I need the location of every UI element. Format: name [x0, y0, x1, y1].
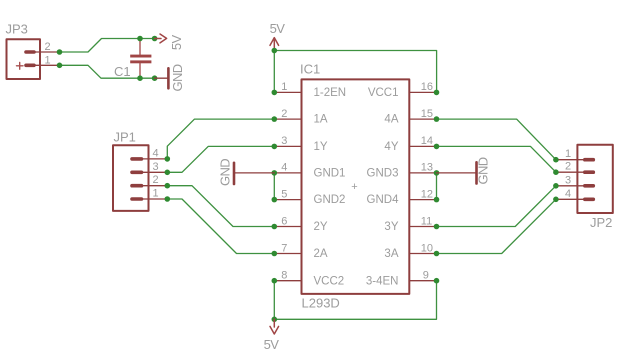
wire JP1.3 to IC pin3 — [167, 146, 274, 172]
svg-text:9: 9 — [423, 270, 429, 282]
junction JP1.4 — [165, 156, 171, 162]
wire IC pin14 to JP2.2 — [437, 146, 556, 172]
IC pin numbers right — [421, 81, 433, 281]
junction pin16 — [434, 90, 440, 96]
junction JP3.2 — [57, 49, 63, 55]
svg-text:VCC2: VCC2 — [314, 275, 345, 287]
svg-text:VCC1: VCC1 — [368, 87, 399, 99]
svg-text:2Y: 2Y — [314, 221, 328, 233]
IC pin 10 — [409, 253, 436, 255]
svg-text:2: 2 — [153, 174, 159, 186]
IC pin 12 — [409, 199, 436, 201]
wire JP1.2 to IC pin6 — [167, 186, 274, 227]
wire JP3.1 to GND/C1 rail — [60, 65, 155, 78]
svg-text:10: 10 — [421, 242, 433, 254]
wire IC pin15 to JP2.1 — [437, 119, 556, 160]
junction pin8 — [272, 278, 278, 284]
junction C1 top — [137, 36, 143, 42]
junction pin7 — [272, 251, 278, 257]
wire IC pin10 to JP2.4 — [437, 199, 556, 253]
svg-text:IC1: IC1 — [300, 62, 320, 77]
IC pin 8 — [274, 280, 301, 282]
IC pin name labels left column — [314, 87, 347, 287]
svg-text:3: 3 — [281, 135, 287, 147]
ground symbol right of IC (GND3/GND4) — [437, 162, 477, 183]
svg-text:15: 15 — [421, 108, 433, 120]
junction bottom 5V — [272, 317, 278, 323]
wire 5V net: IC pin1 up, rail across, down to IC pin16 — [274, 51, 436, 93]
IC pin 3 — [274, 145, 301, 147]
wire GND1 to GND2 link — [273, 173, 275, 200]
IC pin name labels right column — [366, 87, 399, 287]
power 5V arrow (right-pointing, top-left) — [155, 34, 167, 43]
svg-text:1: 1 — [565, 148, 571, 160]
svg-text:1A: 1A — [314, 114, 328, 126]
ground symbol near C1 — [155, 68, 169, 88]
svg-text:GND4: GND4 — [367, 194, 400, 206]
junction C1 bottom — [137, 75, 143, 81]
junction pin10 — [434, 251, 440, 257]
svg-text:2: 2 — [565, 161, 571, 173]
junction pin12 — [434, 197, 440, 203]
wire bottom 5V net: IC pin8 down, across, up to IC pin9 — [274, 281, 436, 320]
junction JP3.1 — [57, 63, 63, 69]
IC pin 11 — [409, 226, 436, 228]
wire IC pin11 to JP2.3 — [437, 186, 556, 227]
power 5V arrow (up, above IC) — [270, 38, 279, 51]
svg-text:13: 13 — [421, 162, 433, 174]
junction pin13 — [434, 170, 440, 176]
IC pin 2 — [274, 118, 301, 120]
wire GND3 to GND4 link — [436, 173, 438, 200]
svg-text:GND: GND — [218, 159, 233, 186]
svg-text:3-4EN: 3-4EN — [366, 275, 399, 287]
svg-text:GND3: GND3 — [367, 168, 399, 180]
svg-text:L293D: L293D — [302, 296, 340, 311]
IC pin numbers left — [281, 81, 287, 281]
svg-text:GND2: GND2 — [314, 194, 346, 206]
junction JP2.2 — [553, 169, 559, 175]
junction pin9 — [434, 278, 440, 284]
IC pin 14 — [409, 145, 436, 147]
svg-text:1: 1 — [45, 55, 51, 67]
ground symbol left of IC (GND1/GND2) — [234, 163, 274, 184]
junctions IC right pins — [434, 90, 440, 284]
IC U1 (L293D) body — [302, 79, 410, 294]
capacitor C1 — [130, 41, 151, 76]
connector JP1 — [113, 145, 167, 211]
junction JP1.3 — [165, 170, 171, 176]
IC pin 5 — [274, 199, 301, 201]
svg-text:GND1: GND1 — [314, 168, 346, 180]
svg-text:4Y: 4Y — [384, 141, 398, 153]
junction pin1 — [272, 90, 278, 96]
junction pin3 — [272, 144, 278, 150]
svg-text:GND: GND — [170, 64, 185, 91]
IC pin 13 — [409, 172, 436, 174]
junction pin5 — [272, 197, 278, 203]
svg-text:4A: 4A — [384, 114, 398, 126]
svg-text:5V: 5V — [264, 337, 280, 352]
svg-text:1: 1 — [281, 81, 287, 93]
wire JP1.1 to IC pin7 — [167, 199, 274, 254]
IC pin 16 — [409, 91, 436, 93]
junction 5V top — [272, 48, 278, 54]
IC pin 6 — [274, 226, 301, 228]
svg-text:4: 4 — [565, 188, 571, 200]
svg-text:2: 2 — [281, 108, 287, 120]
IC pin 1 — [274, 91, 301, 93]
junction 5V arrow left — [152, 36, 158, 42]
junction JP1.1 — [165, 196, 171, 202]
power 5V arrow (down, below IC) — [270, 319, 279, 334]
svg-text:3Y: 3Y — [384, 221, 398, 233]
svg-text:12: 12 — [421, 188, 433, 200]
svg-text:+: + — [351, 181, 357, 193]
junction JP2.3 — [553, 183, 559, 189]
connector JP2 — [556, 145, 613, 213]
junction pin4 — [272, 170, 278, 176]
svg-text:C1: C1 — [114, 64, 131, 79]
junction JP2.1 — [553, 157, 559, 163]
IC pin 15 — [409, 118, 436, 120]
svg-text:JP1: JP1 — [114, 130, 136, 145]
svg-text:JP2: JP2 — [590, 215, 612, 230]
IC pin 4 — [274, 172, 301, 174]
svg-text:11: 11 — [421, 215, 432, 227]
svg-text:7: 7 — [281, 242, 287, 254]
svg-text:GND: GND — [476, 157, 491, 184]
svg-text:2: 2 — [45, 41, 51, 53]
svg-text:5: 5 — [281, 188, 287, 200]
svg-text:3: 3 — [153, 161, 159, 173]
junctions IC left pins — [272, 90, 278, 284]
svg-text:5V: 5V — [270, 21, 286, 36]
svg-text:4: 4 — [153, 147, 159, 159]
svg-text:6: 6 — [281, 215, 287, 227]
junction pin6 — [272, 224, 278, 230]
svg-text:1: 1 — [153, 188, 159, 200]
svg-text:JP3: JP3 — [6, 22, 28, 37]
svg-text:3: 3 — [565, 174, 571, 186]
svg-text:8: 8 — [281, 270, 287, 282]
junction pin11 — [434, 224, 440, 230]
wire JP3.2 to 5V rail — [60, 39, 155, 53]
svg-text:3A: 3A — [384, 248, 398, 260]
junction JP1.2 — [165, 183, 171, 189]
svg-text:4: 4 — [281, 162, 287, 174]
junction pin2 — [272, 116, 278, 122]
IC pin 7 — [274, 253, 301, 255]
svg-text:1-2EN: 1-2EN — [314, 87, 347, 99]
svg-text:1Y: 1Y — [314, 141, 328, 153]
connector JP3 — [7, 39, 60, 79]
junction pin15 — [434, 116, 440, 122]
svg-text:16: 16 — [421, 81, 433, 93]
IC pin 9 — [409, 280, 436, 282]
svg-text:14: 14 — [421, 135, 433, 147]
svg-text:2A: 2A — [314, 248, 328, 260]
junction pin14 — [434, 144, 440, 150]
junction JP2.4 — [553, 197, 559, 203]
junction GND stub left — [152, 75, 158, 81]
wire JP1.4 to IC pin2 — [167, 119, 274, 159]
svg-text:5V: 5V — [169, 35, 184, 51]
